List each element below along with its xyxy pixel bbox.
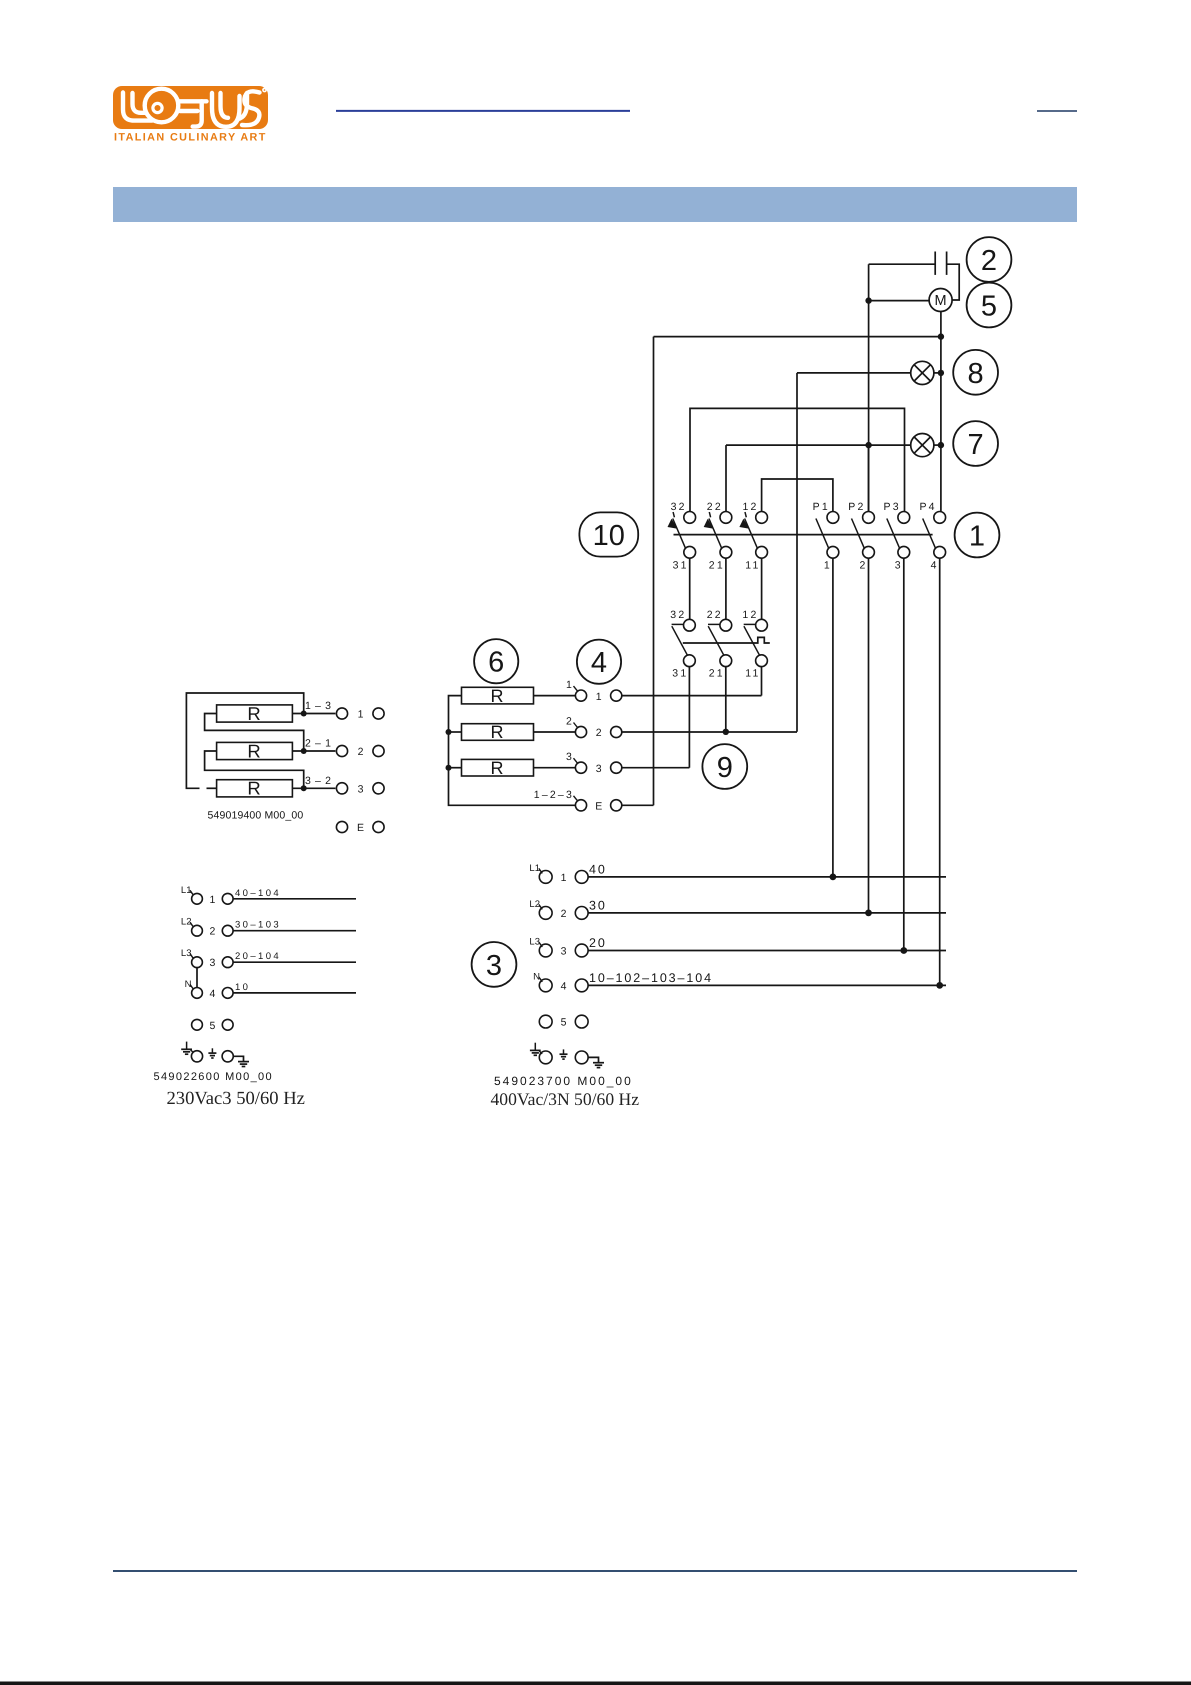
terminal 1 group4 [566, 679, 622, 703]
wire contact22 riser [725, 445, 727, 511]
svg-text:12: 12 [742, 609, 758, 621]
lamp 7 [911, 434, 934, 457]
wire R1L to terminal [292, 713, 335, 715]
svg-text:2: 2 [358, 746, 364, 758]
wire cap right to motor [947, 264, 960, 300]
svg-text:1–3: 1–3 [305, 700, 335, 712]
svg-text:E: E [357, 822, 364, 834]
svg-text:L1: L1 [529, 863, 540, 874]
callout 10 [579, 512, 638, 556]
svg-text:2: 2 [566, 716, 574, 728]
terminal 4 230V block [185, 979, 233, 1000]
wire motor bottom [940, 312, 942, 337]
wire motor left tap [869, 300, 930, 302]
switch coupling bar bank1 [674, 534, 933, 536]
svg-text:E: E [595, 801, 602, 813]
wire 21 drop [725, 558, 727, 619]
svg-text:P1: P1 [813, 501, 830, 513]
wire L3-N link [196, 968, 198, 988]
callout 9 [702, 744, 747, 789]
svg-text:R: R [491, 722, 504, 742]
svg-text:3: 3 [209, 957, 215, 969]
svg-text:30: 30 [589, 898, 607, 912]
svg-text:2–1: 2–1 [305, 738, 335, 750]
wire R2 to terminal [534, 731, 576, 733]
svg-text:1: 1 [566, 679, 574, 691]
svg-text:1: 1 [596, 691, 602, 703]
svg-text:22: 22 [707, 501, 723, 513]
svg-text:2: 2 [859, 560, 867, 572]
wire bracket stub row2 [449, 731, 462, 733]
wire delta inner bracket B [205, 751, 304, 788]
svg-text:11: 11 [745, 560, 760, 572]
terminal 3 group5 [336, 783, 384, 796]
svg-text:5: 5 [981, 291, 997, 323]
node 21b/R2 [723, 729, 729, 735]
svg-text:L3: L3 [181, 948, 192, 959]
wire 40 [588, 876, 946, 878]
wire contact4 drop to N row [939, 558, 941, 985]
wire row1 to 11b [622, 695, 762, 697]
svg-text:30–103: 30–103 [235, 920, 281, 931]
node motor bottom junction [938, 333, 944, 339]
resistor R2 left group [217, 740, 293, 761]
terminal 3 400V block [529, 937, 588, 958]
ground terminal 400V block [530, 1043, 604, 1068]
terminal 3 230V block [181, 948, 233, 969]
svg-text:3: 3 [358, 784, 364, 796]
svg-text:L2: L2 [181, 917, 192, 928]
svg-text:9: 9 [717, 752, 733, 784]
wire row2 to lamp8 branch [622, 731, 797, 733]
wire R1 to terminal [534, 695, 576, 697]
node row40/contact1 [830, 874, 837, 881]
wire 10 [233, 992, 356, 994]
svg-text:21: 21 [709, 560, 725, 572]
svg-text:R: R [491, 686, 504, 706]
wire contact1 drop to L1 row [832, 558, 834, 877]
svg-text:P2: P2 [848, 501, 865, 513]
callout 5 [967, 283, 1012, 328]
wire 11 drop [761, 558, 763, 619]
wire vertical cap/motor to lamp7 line (P2 branch) [868, 264, 870, 511]
wire delta outer bracket [186, 693, 303, 788]
wire 40–104 [233, 898, 356, 900]
wire 30–103 [233, 930, 356, 932]
callout 8 [953, 350, 998, 395]
wire R3 to terminal [534, 767, 576, 769]
svg-text:1: 1 [561, 872, 567, 884]
svg-text:7: 7 [968, 429, 984, 461]
wire P2 riser [868, 445, 870, 511]
wire lamp8 left [797, 372, 911, 374]
wire delta inner bracket A [205, 714, 304, 752]
terminal 3 group4 [566, 751, 622, 775]
wire lamp8 right [934, 372, 941, 374]
svg-text:11: 11 [745, 668, 760, 680]
svg-text:549023700 M00_00: 549023700 M00_00 [494, 1074, 633, 1088]
svg-text:10: 10 [235, 982, 250, 993]
terminal 5 400V block [539, 1015, 588, 1028]
switch contact P2/2 [848, 501, 874, 572]
terminal 1 230V block [181, 885, 233, 906]
switch contact P3/3 [884, 501, 910, 572]
wire 20 [588, 950, 946, 952]
svg-text:12: 12 [743, 501, 759, 513]
svg-text:31: 31 [673, 560, 689, 572]
node R3L junction [301, 785, 307, 791]
svg-text:R: R [247, 740, 260, 761]
switch contact 22/21 bank2 [707, 609, 732, 680]
wire bridge 12-P1 [762, 479, 833, 511]
node lamp8 [938, 370, 944, 376]
svg-text:32: 32 [671, 501, 687, 513]
svg-text:549022600 M00_00: 549022600 M00_00 [154, 1071, 273, 1083]
svg-text:L3: L3 [529, 937, 540, 948]
resistor R3 right group [462, 758, 534, 778]
svg-text:L1: L1 [181, 885, 192, 896]
node motor tap [865, 297, 871, 303]
wire lamp7 right [934, 444, 941, 446]
terminal 1 group5 [336, 708, 384, 721]
svg-text:1: 1 [969, 521, 985, 553]
wire lamp7 left [726, 444, 911, 446]
node bracket row2 [446, 729, 452, 735]
footer rule [113, 1570, 1077, 1572]
node bracket row3 [446, 765, 452, 771]
terminal 2 group5 [336, 745, 384, 758]
switch coupling bar bank2 with cam notch [683, 637, 770, 643]
svg-text:400Vac/3N 50/60 Hz: 400Vac/3N 50/60 Hz [491, 1089, 640, 1109]
wire 10–102–103–104 [588, 984, 946, 986]
switch contact 12/11 [739, 501, 767, 572]
svg-text:5: 5 [561, 1017, 567, 1029]
resistor R1 right group [462, 686, 534, 706]
svg-text:3: 3 [561, 946, 567, 958]
section title band [113, 187, 1077, 222]
wire contact3 drop to L3 row [903, 558, 905, 950]
node R1L junction [301, 711, 307, 717]
switch contact 22/21 [704, 501, 732, 572]
wire cap left [869, 263, 936, 265]
wire lamp8 branch down to R2 row [796, 373, 798, 732]
wire R3L to terminal [292, 787, 335, 789]
svg-text:5: 5 [209, 1020, 215, 1032]
node row10/contact4 [936, 982, 943, 989]
svg-text:1: 1 [209, 894, 215, 906]
wire 20–104 [233, 961, 356, 963]
svg-text:230Vac3 50/60 Hz: 230Vac3 50/60 Hz [167, 1088, 305, 1109]
switch contact 32/31 [668, 501, 696, 572]
wire contact2 drop to L2 row [868, 558, 870, 913]
svg-text:21: 21 [709, 668, 725, 680]
node row20/contact3 [900, 947, 907, 954]
callout 7 [953, 421, 998, 466]
wire 11b drop to R1 row [761, 667, 763, 696]
svg-text:R: R [247, 703, 260, 724]
header rule center [336, 110, 630, 112]
wire rowE to E-net [622, 804, 654, 806]
svg-text:P4: P4 [919, 501, 936, 513]
switch contact 32/31 bank2 [670, 609, 695, 680]
motor M1 [929, 289, 952, 312]
callout 2 [967, 237, 1012, 282]
terminal 2 400V block [529, 899, 588, 920]
wire contact32 to P3 horizontal [690, 408, 905, 511]
svg-text:4: 4 [931, 560, 939, 572]
svg-text:6: 6 [488, 647, 504, 679]
svg-text:20: 20 [589, 936, 607, 950]
svg-text:10–102–103–104: 10–102–103–104 [589, 971, 713, 985]
Lotus logo [113, 86, 268, 144]
svg-text:4: 4 [209, 988, 215, 1000]
svg-text:2: 2 [981, 245, 997, 277]
resistor R1 left group [217, 703, 293, 724]
switch contact P4/4 [919, 501, 945, 572]
header rule right [1037, 110, 1077, 112]
wire delta outer dash [207, 787, 217, 789]
svg-text:3: 3 [895, 560, 903, 572]
svg-text:R: R [491, 758, 504, 778]
terminal E group5 [336, 821, 384, 834]
wire horizontal E-net [654, 336, 941, 338]
terminal 5 230V block [192, 1019, 234, 1031]
svg-text:3: 3 [596, 763, 602, 775]
callout 3 [472, 942, 517, 987]
svg-text:2: 2 [209, 926, 215, 938]
lamp 8 [911, 361, 934, 384]
node lamp7 right [938, 442, 944, 448]
ground terminal 230V block [181, 1042, 249, 1067]
svg-text:32: 32 [670, 609, 686, 621]
callout 4 [577, 640, 621, 684]
wire vertical motor to P4 [940, 337, 942, 512]
node R2L junction [301, 748, 307, 754]
svg-text:1: 1 [358, 709, 364, 721]
svg-text:L2: L2 [529, 899, 540, 910]
resistor R2 right group [462, 722, 534, 742]
svg-text:10: 10 [593, 520, 625, 552]
wire 21b drop to R2 row [725, 667, 727, 732]
svg-text:2: 2 [596, 727, 602, 739]
svg-text:M: M [935, 293, 947, 309]
svg-text:3–2: 3–2 [305, 775, 335, 787]
wire bracket stub row3 [449, 767, 462, 769]
switch contact P1/1 [813, 501, 839, 572]
page bottom edge [0, 1682, 1191, 1685]
svg-text:40: 40 [589, 862, 607, 876]
wire R2L to terminal [292, 750, 335, 752]
wire 30 [588, 912, 946, 914]
terminal 4 400V block [533, 971, 588, 992]
svg-text:20–104: 20–104 [235, 951, 281, 962]
wire resistor common bracket [449, 696, 576, 806]
svg-text:ITALIAN CULINARY ART: ITALIAN CULINARY ART [114, 132, 267, 144]
svg-text:8: 8 [968, 358, 984, 390]
callout 1 [955, 513, 1000, 558]
switch contact 12/11 bank2 [742, 609, 767, 680]
terminal E group4 [534, 789, 622, 813]
svg-text:P3: P3 [884, 501, 901, 513]
svg-text:1: 1 [824, 560, 832, 572]
svg-text:22: 22 [707, 609, 723, 621]
node lamp7 / P2 [865, 442, 871, 448]
svg-text:31: 31 [672, 668, 688, 680]
svg-text:4: 4 [591, 647, 607, 679]
resistor R3 left group [217, 778, 293, 799]
svg-text:3: 3 [486, 950, 502, 982]
wire vertical E-net [653, 337, 655, 806]
wire 31b drop to R3 row [688, 667, 690, 768]
wire row3 to 31b [622, 767, 690, 769]
wire 31 drop [689, 558, 691, 619]
svg-text:2: 2 [561, 908, 567, 920]
terminal 2 group4 [566, 716, 622, 740]
callout 6 [474, 639, 518, 683]
terminal 2 230V block [181, 917, 233, 938]
svg-text:549019400 M00_00: 549019400 M00_00 [208, 810, 304, 822]
svg-text:1–2–3: 1–2–3 [534, 789, 574, 801]
svg-text:R: R [247, 778, 260, 799]
terminal 1 400V block [529, 863, 588, 884]
node row30/contact2 [865, 910, 872, 917]
svg-text:4: 4 [561, 980, 567, 992]
capacitor C1 [935, 252, 946, 275]
svg-text:40–104: 40–104 [235, 888, 281, 899]
svg-text:3: 3 [566, 751, 574, 763]
